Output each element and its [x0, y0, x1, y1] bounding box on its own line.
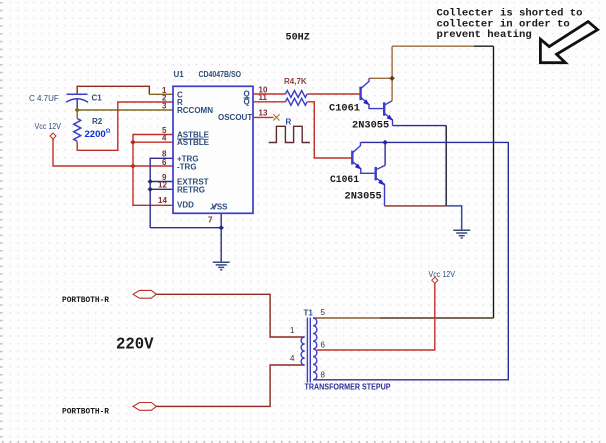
svg-text:3: 3: [162, 101, 167, 110]
power Vcc 12V right symbol: [432, 277, 438, 283]
svg-text:50HZ: 50HZ: [286, 33, 310, 44]
wire node to R2 top: [76, 110, 78, 119]
svg-text:220V: 220V: [116, 335, 154, 354]
capacitor C1: [66, 94, 88, 110]
svg-text:C 4.7UF: C 4.7UF: [29, 94, 59, 103]
node C1/R2/pin3 junction: [75, 107, 80, 112]
ground transistor emitters: [453, 230, 470, 238]
svg-text:6: 6: [162, 158, 167, 167]
svg-text:4: 4: [162, 134, 167, 143]
svg-text:OSCOUT: OSCOUT: [218, 113, 252, 122]
waveform square wave: [269, 126, 310, 142]
transistor Q1 C1061 upper: [361, 78, 384, 108]
wire EXTRST pin9 stub: [150, 181, 173, 183]
svg-text:Vcc 12V: Vcc 12V: [35, 122, 62, 131]
svg-text:Ω: Ω: [106, 129, 111, 135]
emitter arrow Q2: [387, 115, 393, 121]
wire pin13 OSCOUT stub: [253, 116, 274, 118]
wire transformer pin5 run (brown): [313, 317, 380, 319]
svg-text:ASTBLE: ASTBLE: [177, 138, 210, 147]
svg-text:4: 4: [290, 354, 295, 363]
svg-text:2N3055: 2N3055: [345, 190, 382, 202]
junction collector riser: [389, 76, 394, 81]
svg-text:Vcc 12V: Vcc 12V: [429, 270, 456, 279]
transformer primary winding: [301, 337, 304, 365]
wire +TRG pin8 riser: [150, 158, 173, 227]
wire VSS pin7 to ground: [220, 213, 222, 261]
power Vcc 12V left symbol: [50, 133, 56, 139]
svg-text:U1: U1: [174, 70, 185, 79]
wire collector top run black: [474, 45, 494, 47]
wire emitter join to ground stem (navy): [446, 206, 462, 230]
wire C1 top to IC pin1 (maroon segment): [77, 86, 149, 94]
wire port2 to transformer pin4: [156, 365, 304, 406]
transistor Q2 2N3055 upper: [384, 101, 392, 126]
svg-text:CD4047B/SO: CD4047B/SO: [199, 70, 242, 79]
wire ground rail under IC: [150, 227, 221, 229]
emitter arrow Q4: [378, 179, 384, 185]
wire resistor2 to Q3 base: [307, 102, 352, 158]
junction pin4 branch: [130, 140, 135, 145]
svg-text:1: 1: [290, 326, 295, 335]
svg-text:6: 6: [321, 340, 326, 349]
svg-text:T1: T1: [304, 309, 314, 318]
wire R2 bottom loop to IC pin2: [77, 102, 173, 150]
wire node to pin3 (olive): [77, 109, 173, 111]
wire Q3 collector run (blue) to transformer pin8 drop: [313, 142, 508, 379]
transformer core: [307, 318, 310, 383]
svg-text:R: R: [286, 117, 292, 126]
ground below IC: [213, 262, 230, 270]
svg-text:2200: 2200: [85, 129, 106, 140]
svg-text:prevent heating: prevent heating: [437, 29, 532, 41]
no-connect X on pin13: [273, 114, 279, 120]
wire riser down to VDD pin14: [133, 166, 173, 205]
big arrow pointing to collector junction: [540, 22, 597, 63]
junction Q4 collector riser: [382, 140, 387, 145]
svg-text:-TRG: -TRG: [177, 163, 197, 172]
wire riser to ASTBLE pins 5,4: [133, 135, 173, 167]
wire resistor to Q1 base: [307, 93, 359, 95]
wire Q2 emitter to ground drop: [393, 125, 447, 127]
junction pin9: [148, 179, 153, 184]
transistor Q3 C1061 lower: [352, 142, 375, 173]
svg-text:RETRG: RETRG: [177, 185, 205, 194]
svg-text:R4,7K: R4,7K: [284, 77, 307, 86]
svg-text:12: 12: [158, 181, 167, 190]
wire Vcc left to -TRG pin6: [53, 139, 173, 166]
svg-text:VDD: VDD: [177, 201, 194, 210]
wire pin1 olive segment: [149, 93, 173, 95]
wire RETRG pin12 stub: [150, 188, 173, 190]
svg-text:2N3055: 2N3055: [352, 120, 389, 132]
svg-text:PORTBOTH-R: PORTBOTH-R: [62, 295, 110, 305]
junction Vcc/ASTBLE-VDD riser: [130, 163, 135, 168]
resistor lower (unlabeled): [286, 98, 308, 105]
wire Q1 collector to riser (brown): [369, 77, 392, 79]
transformer secondary winding: [313, 318, 317, 380]
svg-text:TRANSFORMER STEPUP: TRANSFORMER STEPUP: [305, 382, 391, 392]
resistor R4.7K upper: [286, 91, 308, 98]
transistor Q4 2N3055 lower: [376, 165, 385, 206]
junction pin12: [148, 187, 153, 192]
resistor R2: [74, 119, 81, 142]
svg-text:14: 14: [158, 196, 167, 205]
svg-text:C1061: C1061: [330, 174, 359, 186]
svg-text:13: 13: [259, 109, 268, 118]
wire port1 to transformer pin1: [156, 294, 304, 337]
wire transformer pin6 to Vcc right: [317, 283, 435, 350]
port PORTBOTH-R lower symbol: [133, 403, 156, 411]
wire collector top run brown: [392, 45, 474, 47]
wire Q4 emitter run (maroon): [385, 205, 447, 207]
emitter arrow Q3: [355, 164, 361, 170]
svg-text:RCCOMN: RCCOMN: [177, 106, 213, 115]
wire pin11 Q to resistor 2: [253, 101, 286, 103]
port PORTBOTH-R upper symbol: [133, 290, 156, 298]
svg-text:5: 5: [321, 308, 326, 317]
emitter arrow Q1: [363, 99, 369, 105]
svg-text:R2: R2: [92, 117, 103, 126]
svg-text:C1: C1: [92, 94, 103, 103]
svg-text:7: 7: [208, 216, 213, 225]
op-amp U1 CD4047B/SO IC body: [173, 86, 253, 213]
svg-text:8: 8: [321, 371, 326, 380]
wire pin10 Q to resistor: [253, 93, 286, 95]
wire emitter drop (dark): [445, 126, 447, 206]
svg-text:Q: Q: [244, 97, 250, 106]
wire collector drop to transformer pin5 (black): [493, 46, 495, 318]
svg-text:C1061: C1061: [329, 103, 360, 115]
svg-text:PORTBOTH-R: PORTBOTH-R: [62, 406, 110, 416]
wire collector riser up (brown): [391, 46, 393, 101]
junction VSS rail: [219, 225, 224, 230]
wire Q4 collector riser: [384, 142, 386, 165]
